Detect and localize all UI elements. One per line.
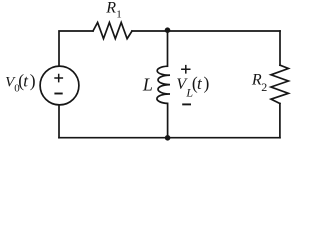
svg-text:): ): [204, 73, 210, 93]
wire: [132, 30, 280, 32]
svg-text:t: t: [197, 74, 203, 93]
svg-text:t: t: [23, 71, 29, 90]
wire: [58, 105, 60, 137]
label minus (inductor voltage): [182, 103, 191, 105]
svg-text:1: 1: [116, 9, 122, 21]
wire: [59, 31, 93, 66]
source minus sign: [54, 93, 62, 95]
resistor R2: [271, 65, 288, 103]
wire: [59, 137, 280, 139]
source plus sign: [54, 74, 63, 83]
wire: [167, 31, 169, 66]
wire: [279, 104, 281, 138]
node bottom junction: [165, 135, 171, 141]
source V0: [40, 66, 79, 105]
label plus (inductor voltage): [181, 65, 190, 74]
resistor R1: [93, 23, 132, 39]
svg-text:R: R: [105, 0, 116, 17]
svg-text:): ): [30, 71, 36, 91]
wire: [279, 31, 281, 65]
inductor L: [157, 66, 170, 103]
svg-text:L: L: [142, 74, 153, 94]
svg-text:2: 2: [261, 80, 267, 94]
wire: [167, 103, 169, 137]
node top junction: [165, 27, 171, 33]
